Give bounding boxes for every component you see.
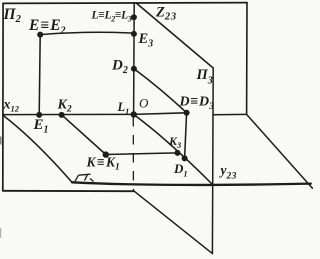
plane П1 left edge (3, 115, 72, 182)
axis z hidden dashed (132, 118, 134, 191)
point K1 (103, 151, 109, 157)
svg-text:E≡E2: E≡E2 (28, 17, 66, 37)
scan smudge left edge lower (0, 228, 1, 238)
point E3 (131, 31, 137, 37)
plane П3 right edge (211, 68, 214, 254)
point D2 (131, 66, 137, 72)
plane П3 top edge (136, 3, 213, 68)
svg-text:D≡D3: D≡D3 (179, 95, 215, 113)
axis x12 segment left (3, 113, 134, 115)
point L (131, 14, 137, 20)
wire E2 to E1 (39, 35, 40, 115)
point E2 (37, 32, 43, 38)
scan smudge left edge upper (0, 137, 2, 145)
point D1 (182, 155, 188, 161)
wire K2 to K1 (62, 115, 106, 155)
wire D2 to D3 (134, 69, 187, 113)
point L1 origin (131, 111, 137, 117)
axis y23 diagonal (134, 114, 212, 184)
plane П2 left edge (2, 3, 4, 190)
axis z23 vertical (133, 3, 136, 115)
plane П2 right edge (246, 3, 248, 115)
point D3 (184, 110, 190, 116)
plane П3 bottom edge (134, 191, 212, 253)
wire D3 to D1 (185, 113, 187, 159)
axis x12 segment right (213, 113, 247, 115)
plane П1 front edge (72, 182, 311, 185)
svg-text:L≡L2≡L3: L≡L2≡L3 (91, 10, 132, 24)
label П1 symbol (75, 174, 94, 181)
point K2 (59, 112, 65, 118)
wire K1 to K3 (106, 153, 178, 155)
plane П2 top edge (3, 2, 247, 5)
plane П1 right edge (247, 114, 313, 188)
plane П2 bottom edge (3, 190, 134, 192)
svg-text:O: O (139, 96, 149, 111)
point E1 (36, 112, 42, 118)
wire O to D3 (134, 113, 187, 115)
point K3 (175, 150, 181, 156)
wire E2 to E3 (40, 32, 134, 34)
